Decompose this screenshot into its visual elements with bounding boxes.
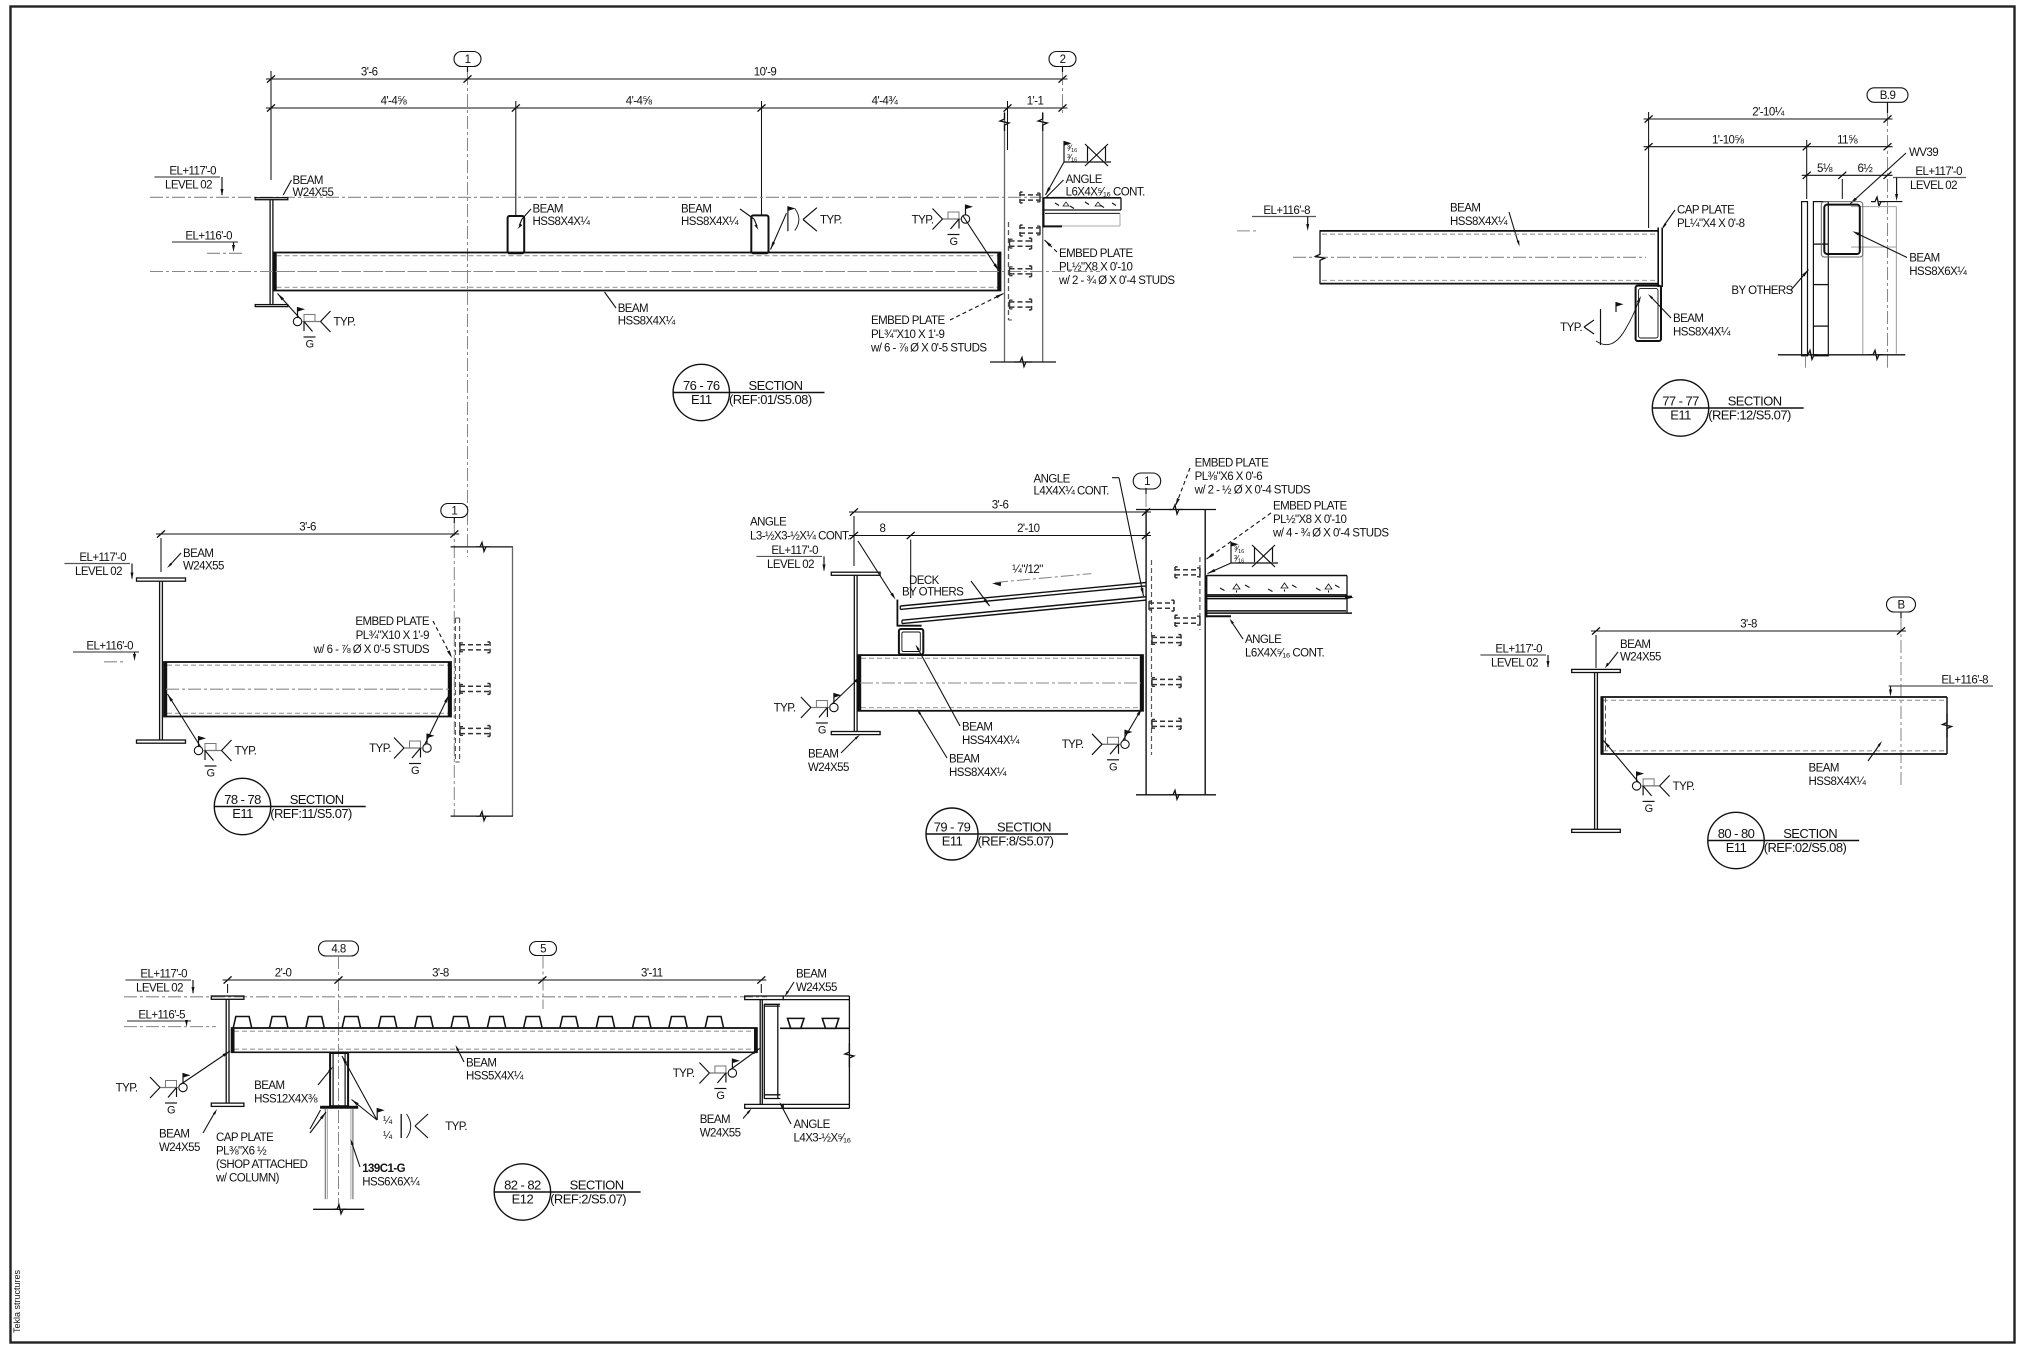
svg-text:TYP.: TYP. (820, 215, 842, 227)
svg-text:79 - 79: 79 - 79 (934, 820, 971, 835)
svg-text:CAP PLATE: CAP PLATE (1677, 205, 1735, 217)
svg-text:EL+117'-0: EL+117'-0 (1915, 166, 1962, 178)
svg-text:W24X55: W24X55 (183, 561, 224, 573)
svg-text:2: 2 (1060, 54, 1066, 66)
svg-text:TYP.: TYP. (369, 743, 391, 755)
svg-text:HSS4X4X¼: HSS4X4X¼ (962, 735, 1020, 747)
svg-text:BEAM: BEAM (254, 1080, 284, 1092)
svg-text:PL¼"X4 X 0'-8: PL¼"X4 X 0'-8 (1677, 218, 1745, 230)
svg-text:B: B (1897, 600, 1905, 612)
svg-text:³⁄₁₆: ³⁄₁₆ (1234, 544, 1245, 554)
svg-text:BEAM: BEAM (1673, 313, 1703, 325)
svg-text:L6X4X⁵⁄₁₆ CONT.: L6X4X⁵⁄₁₆ CONT. (1066, 187, 1146, 199)
svg-text:³⁄₁₆: ³⁄₁₆ (1067, 153, 1078, 163)
svg-text:BEAM: BEAM (949, 754, 979, 766)
svg-text:6½: 6½ (1857, 163, 1873, 175)
svg-text:1: 1 (451, 506, 457, 518)
svg-text:BEAM: BEAM (796, 969, 826, 981)
svg-text:LEVEL 02: LEVEL 02 (1491, 658, 1538, 670)
svg-text:G: G (818, 725, 826, 737)
svg-text:5: 5 (540, 944, 546, 956)
svg-text:3'-11: 3'-11 (641, 968, 663, 980)
svg-text:G: G (167, 1105, 175, 1117)
svg-text:EL+117'-0: EL+117'-0 (79, 552, 126, 564)
svg-text:w/ COLUMN): w/ COLUMN) (215, 1173, 280, 1185)
svg-text:(REF:11/S5.07): (REF:11/S5.07) (270, 806, 352, 821)
svg-text:HSS5X4X¼: HSS5X4X¼ (466, 1071, 524, 1083)
svg-text:G: G (411, 765, 419, 777)
svg-text:WV39: WV39 (1909, 147, 1938, 159)
svg-text:G: G (1109, 761, 1117, 773)
svg-text:HSS8X4X¼: HSS8X4X¼ (618, 316, 676, 328)
svg-text:L6X4X⁵⁄₁₆ CONT.: L6X4X⁵⁄₁₆ CONT. (1245, 648, 1325, 660)
svg-text:ANGLE: ANGLE (1034, 474, 1071, 486)
svg-text:EMBED PLATE: EMBED PLATE (1059, 248, 1133, 260)
svg-text:EL+117'-0: EL+117'-0 (1495, 644, 1542, 656)
svg-text:TYP.: TYP. (912, 215, 934, 227)
svg-text:11⅝: 11⅝ (1837, 134, 1858, 146)
svg-text:139C1-G: 139C1-G (362, 1163, 405, 1175)
svg-text:4'-4⅝: 4'-4⅝ (626, 96, 653, 108)
svg-text:BEAM: BEAM (1620, 639, 1650, 651)
svg-text:EL+116'-0: EL+116'-0 (86, 641, 133, 653)
svg-text:EL+117'-0: EL+117'-0 (140, 969, 187, 981)
svg-text:HSS8X4X¼: HSS8X4X¼ (533, 216, 591, 228)
svg-text:EL+116'-0: EL+116'-0 (185, 231, 232, 243)
svg-text:BEAM: BEAM (962, 722, 992, 734)
svg-text:BY OTHERS: BY OTHERS (1731, 285, 1793, 297)
svg-text:EMBED PLATE: EMBED PLATE (871, 315, 945, 327)
svg-text:EMBED PLATE: EMBED PLATE (1273, 501, 1347, 513)
svg-text:BEAM: BEAM (681, 204, 711, 216)
svg-text:5⅛: 5⅛ (1817, 163, 1833, 175)
svg-text:SECTION: SECTION (1783, 826, 1837, 841)
svg-text:ANGLE: ANGLE (1066, 174, 1103, 186)
svg-text:TYP.: TYP. (1673, 781, 1695, 793)
svg-text:3'-6: 3'-6 (992, 500, 1009, 512)
svg-text:HSS8X4X¼: HSS8X4X¼ (1450, 216, 1508, 228)
svg-text:w/ 6 - ⅞ Ø X 0'-5 STUDS: w/ 6 - ⅞ Ø X 0'-5 STUDS (870, 343, 987, 355)
svg-text:HSS8X4X¼: HSS8X4X¼ (1673, 327, 1731, 339)
svg-text:L4X3-½X⁵⁄₁₆: L4X3-½X⁵⁄₁₆ (794, 1133, 852, 1145)
svg-text:¼: ¼ (383, 1130, 393, 1142)
svg-text:PL½"X8 X 0'-10: PL½"X8 X 0'-10 (1059, 262, 1133, 274)
svg-text:1: 1 (1144, 476, 1150, 488)
svg-text:(REF:01/S5.08): (REF:01/S5.08) (729, 392, 812, 407)
svg-text:L3-½X3-½X¼ CONT.: L3-½X3-½X¼ CONT. (750, 531, 850, 543)
svg-text:EL+117'-0: EL+117'-0 (771, 545, 818, 557)
svg-text:SECTION: SECTION (1728, 394, 1782, 409)
svg-text:G: G (716, 1090, 724, 1102)
svg-text:CAP PLATE: CAP PLATE (216, 1132, 274, 1144)
svg-text:Tekla structures: Tekla structures (12, 1269, 22, 1333)
svg-text:SECTION: SECTION (997, 820, 1051, 835)
svg-text:DECK: DECK (909, 575, 940, 587)
svg-text:EL+116'-8: EL+116'-8 (1941, 675, 1988, 687)
svg-text:78 - 78: 78 - 78 (224, 792, 261, 807)
svg-text:BEAM: BEAM (808, 749, 838, 761)
svg-text:10'-9: 10'-9 (754, 67, 777, 79)
svg-text:EL+116'-8: EL+116'-8 (1263, 205, 1310, 217)
svg-text:w/ 6 - ⅞ Ø X 0'-5 STUDS: w/ 6 - ⅞ Ø X 0'-5 STUDS (313, 644, 430, 656)
svg-text:BEAM: BEAM (183, 548, 213, 560)
svg-text:LEVEL 02: LEVEL 02 (1910, 180, 1957, 192)
svg-text:HSS6X6X¼: HSS6X6X¼ (362, 1177, 420, 1189)
svg-text:w/ 2 - ½ Ø X 0'-4 STUDS: w/ 2 - ½ Ø X 0'-4 STUDS (1194, 485, 1311, 497)
svg-text:LEVEL 02: LEVEL 02 (165, 180, 212, 192)
svg-text:W24X55: W24X55 (293, 187, 334, 199)
svg-text:BEAM: BEAM (159, 1129, 189, 1141)
svg-text:B.9: B.9 (1880, 90, 1896, 102)
svg-text:76 - 76: 76 - 76 (683, 378, 720, 393)
svg-text:8: 8 (879, 523, 885, 535)
svg-text:E11: E11 (691, 392, 712, 407)
svg-text:1'-10⅝: 1'-10⅝ (1712, 134, 1744, 146)
svg-text:(REF:2/S5.07): (REF:2/S5.07) (550, 1192, 626, 1207)
svg-text:ANGLE: ANGLE (1245, 634, 1282, 646)
svg-text:1'-1: 1'-1 (1027, 96, 1044, 108)
svg-text:HSS12X4X⅜: HSS12X4X⅜ (254, 1094, 318, 1106)
svg-text:PL⅜"X6 X 0'-6: PL⅜"X6 X 0'-6 (1195, 471, 1263, 483)
svg-text:PL¾"X10 X 1'-9: PL¾"X10 X 1'-9 (871, 329, 945, 341)
svg-text:TYP.: TYP. (445, 1121, 467, 1133)
svg-text:3'-6: 3'-6 (299, 522, 316, 534)
svg-text:HSS8X4X¼: HSS8X4X¼ (681, 216, 739, 228)
svg-text:(REF:12/S5.07): (REF:12/S5.07) (1708, 408, 1791, 423)
svg-text:E11: E11 (942, 834, 963, 849)
svg-text:w/ 4 - ¾ Ø X 0'-4 STUDS: w/ 4 - ¾ Ø X 0'-4 STUDS (1272, 528, 1389, 540)
svg-text:TYP.: TYP. (116, 1083, 138, 1095)
svg-text:¼"/12": ¼"/12" (1012, 564, 1043, 576)
svg-text:BEAM: BEAM (1450, 203, 1480, 215)
svg-text:BEAM: BEAM (533, 204, 563, 216)
svg-text:E11: E11 (1670, 408, 1691, 423)
svg-text:SECTION: SECTION (290, 792, 344, 807)
svg-text:2'-10¼: 2'-10¼ (1752, 107, 1784, 119)
svg-text:3'-8: 3'-8 (1740, 619, 1757, 631)
svg-text:LEVEL 02: LEVEL 02 (75, 566, 122, 578)
svg-text:PL⅜"X6 ½: PL⅜"X6 ½ (216, 1146, 267, 1158)
svg-text:ANGLE: ANGLE (794, 1119, 831, 1131)
svg-text:TYP.: TYP. (1560, 322, 1582, 334)
svg-text:1: 1 (465, 54, 471, 66)
svg-text:BEAM: BEAM (1909, 253, 1939, 265)
svg-text:W24X55: W24X55 (159, 1142, 200, 1154)
svg-text:4'-4⅝: 4'-4⅝ (381, 96, 408, 108)
svg-text:HSS8X4X¼: HSS8X4X¼ (1809, 776, 1867, 788)
svg-text:E11: E11 (232, 806, 253, 821)
svg-text:L4X4X¼ CONT.: L4X4X¼ CONT. (1034, 486, 1110, 498)
svg-text:(SHOP ATTACHED: (SHOP ATTACHED (216, 1159, 308, 1171)
svg-text:EL+116'-5: EL+116'-5 (138, 1010, 185, 1022)
svg-text:BY OTHERS: BY OTHERS (902, 587, 964, 599)
svg-text:G: G (305, 339, 313, 351)
svg-text:3'-6: 3'-6 (361, 67, 378, 79)
svg-text:ANGLE: ANGLE (750, 517, 787, 529)
svg-text:³⁄₁₆: ³⁄₁₆ (1234, 554, 1245, 564)
svg-text:HSS8X4X¼: HSS8X4X¼ (949, 767, 1007, 779)
svg-text:BEAM: BEAM (700, 1114, 730, 1126)
svg-text:TYP.: TYP. (1062, 739, 1084, 751)
svg-text:80 - 80: 80 - 80 (1718, 826, 1755, 841)
svg-text:G: G (949, 236, 957, 248)
svg-text:EL+117'-0: EL+117'-0 (169, 166, 216, 178)
svg-text:LEVEL 02: LEVEL 02 (136, 983, 183, 995)
svg-text:TYP.: TYP. (673, 1068, 695, 1080)
svg-text:TYP.: TYP. (235, 746, 257, 758)
svg-text:BEAM: BEAM (618, 303, 648, 315)
svg-text:W24X55: W24X55 (1620, 652, 1661, 664)
svg-text:E12: E12 (512, 1192, 534, 1207)
svg-text:G: G (1645, 803, 1653, 815)
svg-text:77 - 77: 77 - 77 (1662, 394, 1699, 409)
svg-text:³⁄₁₆: ³⁄₁₆ (1067, 143, 1078, 153)
svg-text:(REF:8/S5.07): (REF:8/S5.07) (978, 834, 1054, 849)
svg-text:(REF:02/S5.08): (REF:02/S5.08) (1764, 840, 1847, 855)
svg-text:EMBED PLATE: EMBED PLATE (355, 616, 429, 628)
svg-text:W24X55: W24X55 (700, 1128, 741, 1140)
svg-text:4'-4¾: 4'-4¾ (872, 96, 899, 108)
svg-text:LEVEL 02: LEVEL 02 (767, 559, 814, 571)
svg-text:w/ 2 - ¾ Ø X 0'-4 STUDS: w/ 2 - ¾ Ø X 0'-4 STUDS (1058, 275, 1175, 287)
svg-text:TYP.: TYP. (774, 703, 796, 715)
svg-text:EMBED PLATE: EMBED PLATE (1195, 458, 1269, 470)
svg-text:¼: ¼ (383, 1115, 393, 1127)
svg-text:2'-0: 2'-0 (275, 968, 292, 980)
svg-text:TYP.: TYP. (334, 317, 356, 329)
svg-text:2'-10: 2'-10 (1017, 523, 1040, 535)
svg-text:82 - 82: 82 - 82 (504, 1178, 541, 1193)
svg-text:HSS8X6X¼: HSS8X6X¼ (1909, 266, 1967, 278)
svg-text:PL¾"X10 X 1'-9: PL¾"X10 X 1'-9 (356, 630, 430, 642)
svg-text:BEAM: BEAM (466, 1058, 496, 1070)
svg-text:W24X55: W24X55 (796, 982, 837, 994)
svg-text:G: G (206, 768, 214, 780)
svg-text:SECTION: SECTION (749, 378, 803, 393)
svg-text:4.8: 4.8 (331, 944, 345, 956)
svg-text:BEAM: BEAM (1809, 763, 1839, 775)
svg-text:E11: E11 (1726, 840, 1747, 855)
svg-text:3'-8: 3'-8 (432, 968, 449, 980)
svg-text:PL½"X8 X 0'-10: PL½"X8 X 0'-10 (1273, 514, 1347, 526)
svg-text:BEAM: BEAM (293, 175, 323, 187)
svg-text:SECTION: SECTION (570, 1178, 624, 1193)
svg-text:W24X55: W24X55 (808, 762, 849, 774)
